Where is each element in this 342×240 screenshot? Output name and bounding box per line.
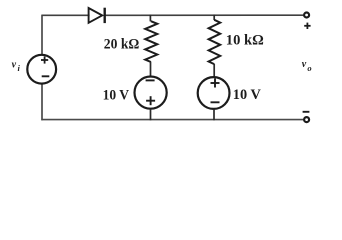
wire left vertical upper	[41, 15, 43, 55]
source vi circle	[27, 55, 56, 84]
V2 minus sign	[211, 101, 220, 103]
svg-text:v: v	[302, 59, 307, 70]
V1 minus sign	[146, 79, 155, 81]
node branch1 top lead	[149, 15, 151, 22]
output minus sign	[303, 111, 310, 113]
wire branch2 bottom lead	[213, 109, 215, 120]
wire bottom rail	[41, 119, 303, 121]
svg-text:10 V: 10 V	[103, 88, 130, 104]
resistor R2 10 kOhm	[209, 20, 221, 64]
diode D1	[89, 8, 105, 23]
output plus sign	[304, 23, 310, 29]
voltage source V1 10V circle	[135, 77, 167, 109]
wire top rail right segment	[105, 14, 304, 16]
svg-text:i: i	[18, 63, 21, 73]
svg-text:10 kΩ: 10 kΩ	[226, 32, 264, 48]
wire branch1 middle lead	[150, 62, 152, 77]
node branch2 top lead	[213, 15, 215, 20]
svg-text:v: v	[12, 60, 17, 71]
wire left vertical lower	[41, 84, 43, 120]
voltage source V2 10V circle	[198, 77, 230, 109]
V2 plus sign	[211, 79, 220, 88]
resistor R1 20 kOhm	[145, 21, 157, 62]
svg-text:10 V: 10 V	[233, 87, 261, 103]
wire branch2 middle lead	[213, 64, 215, 78]
terminal output top	[304, 13, 309, 18]
svg-text:20 kΩ: 20 kΩ	[104, 37, 140, 53]
vi minus sign	[42, 75, 50, 77]
wire top rail left segment	[42, 14, 90, 16]
wire branch1 bottom lead	[150, 109, 152, 121]
terminal output bottom	[304, 117, 309, 122]
vi plus sign	[41, 56, 48, 63]
V1 plus sign	[146, 96, 155, 105]
svg-text:o: o	[307, 63, 311, 73]
